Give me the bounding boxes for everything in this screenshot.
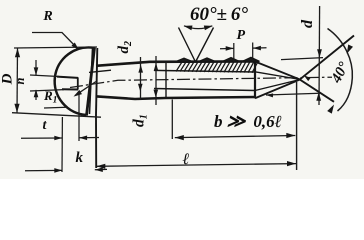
hatching of thread section: [176, 62, 258, 73]
60 degree thread angle: [179, 28, 214, 63]
extension verticals below head: [61, 117, 63, 172]
d extension bottom: [266, 93, 320, 95]
head outline arc: [55, 47, 95, 115]
b extension vertical: [171, 100, 173, 140]
tip extension vertical: [296, 82, 298, 170]
cone root top slant: [255, 72, 300, 80]
slot bottom vertical: [77, 77, 79, 89]
cone base vertical: [254, 62, 256, 99]
thread root top line: [154, 70, 255, 72]
svg-text:40°: 40°: [328, 60, 352, 87]
thread teeth on crest: [176, 58, 193, 62]
centerline: [70, 77, 332, 87]
head face middle line: [90, 48, 93, 114]
svg-text:d: d: [299, 19, 316, 28]
cone top slant + extension: [255, 62, 334, 102]
40 degree arc: [328, 29, 353, 112]
l dimension line: [96, 164, 296, 167]
D extension line bottom: [12, 113, 101, 118]
svg-text:60°± 6°: 60°± 6°: [190, 4, 248, 25]
svg-text:R: R: [42, 9, 52, 24]
D dimension line: [16, 48, 19, 113]
shank crest top line: [96, 61, 255, 65]
small arrow near tip on extension: [304, 75, 311, 81]
slot bottom line: [62, 88, 78, 90]
cone bottom slant + extension: [255, 36, 354, 99]
n dimension arrows: [35, 60, 37, 100]
svg-text:d1: d1: [131, 114, 150, 127]
n extension top: [30, 75, 59, 77]
thread start vertical: [165, 63, 167, 99]
b dimension line: [175, 136, 295, 138]
thread root bottom line: [154, 89, 255, 91]
D extension line top: [14, 47, 97, 48]
svg-text:ℓ: ℓ: [182, 151, 190, 168]
slot top line: [57, 77, 78, 78]
svg-text:t: t: [43, 118, 48, 133]
cone root bottom slant: [255, 80, 300, 91]
n extension bottom: [30, 90, 64, 91]
svg-text:n: n: [13, 77, 27, 84]
d extension top: [281, 58, 323, 60]
shank crest bottom line: [97, 96, 255, 99]
svg-text:b≫0,6ℓ: b≫0,6ℓ: [214, 111, 282, 131]
head face outer / l extension: [96, 48, 97, 168]
head face: [87, 48, 95, 116]
svg-text:P: P: [237, 28, 246, 43]
fillet line under head: [89, 70, 111, 72]
svg-text:d2: d2: [116, 41, 134, 54]
svg-text:k: k: [76, 150, 84, 166]
